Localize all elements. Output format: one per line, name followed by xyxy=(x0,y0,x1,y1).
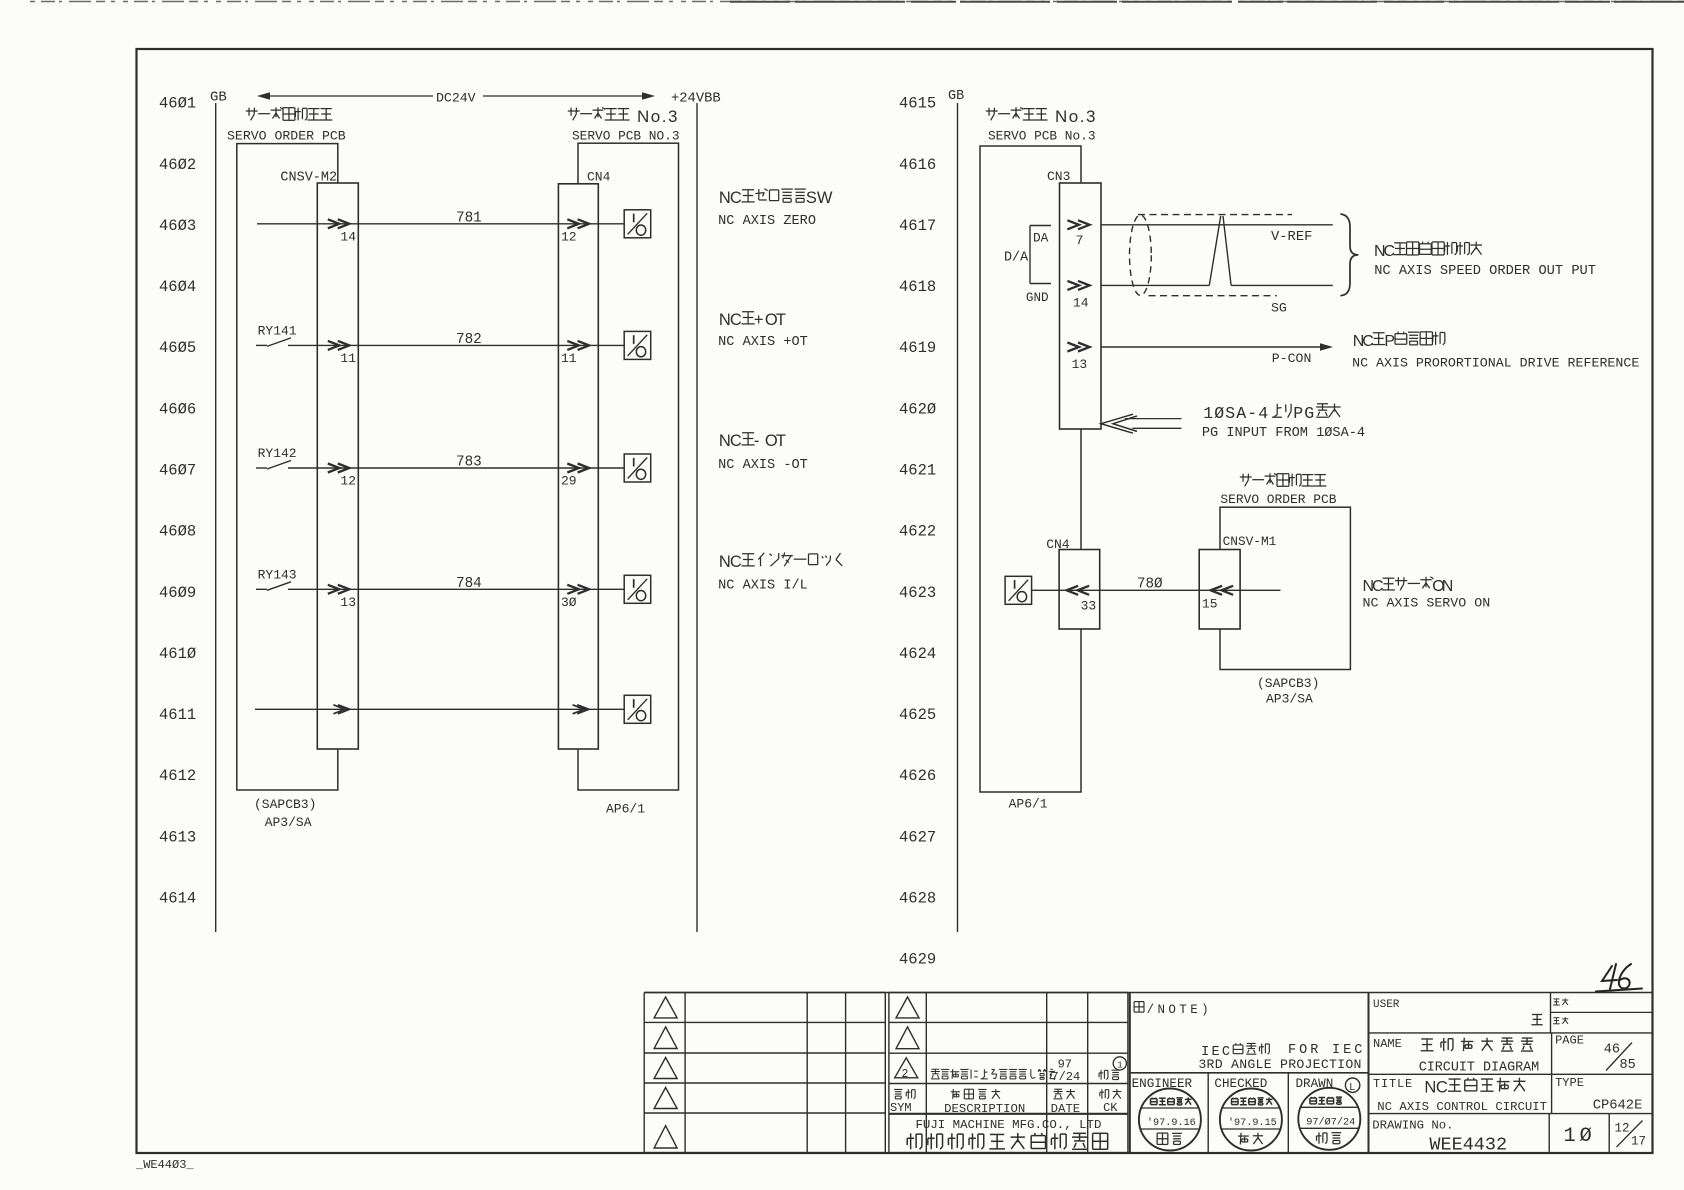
svg-text:3Ø: 3Ø xyxy=(561,595,577,610)
svg-text:462Ø: 462Ø xyxy=(899,400,936,418)
svg-text:78Ø: 78Ø xyxy=(1137,576,1163,592)
svg-text:85: 85 xyxy=(1620,1058,1636,1073)
svg-text:4613: 4613 xyxy=(159,828,196,846)
svg-text:C: C xyxy=(730,189,742,207)
svg-text:-: - xyxy=(754,432,760,450)
svg-text:46Ø3: 46Ø3 xyxy=(159,217,196,235)
svg-text:46Ø2: 46Ø2 xyxy=(159,156,196,174)
I/O block row 4603 xyxy=(624,210,651,238)
wire: +24VBB bus vertical xyxy=(696,103,698,932)
svg-text:SYM: SYM xyxy=(890,1101,912,1115)
svg-text:(SAPCB3): (SAPCB3) xyxy=(254,797,316,812)
wire 780 row 4623 xyxy=(1032,589,1281,591)
approval stamps xyxy=(1139,1089,1201,1151)
svg-text:NC AXIS SPEED ORDER OUT PUT: NC AXIS SPEED ORDER OUT PUT xyxy=(1374,264,1596,279)
svg-text:4615: 4615 xyxy=(899,95,936,113)
svg-text:V-REF: V-REF xyxy=(1271,230,1312,245)
svg-text:S: S xyxy=(1225,404,1235,423)
svg-text:3RD ANGLE PROJECTION: 3RD ANGLE PROJECTION xyxy=(1198,1057,1361,1072)
connector CN4 (right half) xyxy=(1059,550,1100,630)
revision triangle marker rev 2 xyxy=(895,1058,918,1078)
svg-text:NC AXIS +OT: NC AXIS +OT xyxy=(718,335,808,350)
svg-text:12: 12 xyxy=(561,229,577,244)
brace for NC axis speed order output xyxy=(1340,214,1358,296)
svg-text:2: 2 xyxy=(902,1068,909,1081)
junction chevrons out of CNSV-M1 pin 15 xyxy=(1211,586,1223,595)
svg-text:+: + xyxy=(754,311,764,329)
junction chevrons into CN4 pin 29 xyxy=(567,464,579,473)
revision 2 description xyxy=(931,1068,939,1070)
revision 2 CK name xyxy=(1100,1070,1102,1080)
revision triangle marker xyxy=(654,1027,677,1049)
svg-text:46Ø6: 46Ø6 xyxy=(159,400,196,418)
svg-text:P-CON: P-CON xyxy=(1272,351,1312,366)
svg-text:1: 1 xyxy=(1203,404,1213,423)
svg-text:17: 17 xyxy=(1631,1135,1646,1149)
label servo PCB No.3 (Japanese, left half) xyxy=(568,110,580,112)
svg-text:No.3: No.3 xyxy=(1055,107,1097,126)
svg-text:33: 33 xyxy=(1081,598,1097,613)
svg-text:GB: GB xyxy=(210,90,227,106)
svg-text:4617: 4617 xyxy=(899,217,936,235)
table headers SYM/DESCRIPTION/DATE/CK xyxy=(894,1088,902,1090)
board U1 servo order PCB outline (SAPCB3 AP3/SA) xyxy=(237,144,338,790)
svg-text:DA: DA xyxy=(1033,231,1049,246)
svg-text:CK: CK xyxy=(1103,1101,1118,1115)
svg-text:11: 11 xyxy=(561,351,577,366)
svg-text:'97.9.15: '97.9.15 xyxy=(1228,1117,1277,1129)
svg-text:PG INPUT FROM 1ØSA-4: PG INPUT FROM 1ØSA-4 xyxy=(1202,426,1365,441)
svg-text:AP6/1: AP6/1 xyxy=(606,802,645,817)
svg-text:46Ø4: 46Ø4 xyxy=(159,278,196,296)
svg-text:Ø: Ø xyxy=(1580,1125,1592,1148)
svg-text:C: C xyxy=(730,553,742,571)
PG input arrows into CN3 xyxy=(1125,418,1182,420)
svg-text:AP6/1: AP6/1 xyxy=(1009,797,1048,812)
svg-text:C: C xyxy=(730,311,742,329)
relay contact RY143 xyxy=(256,588,267,590)
wire: GB bus vertical (left) xyxy=(215,103,217,932)
svg-text:NC AXIS ZERO: NC AXIS ZERO xyxy=(718,214,816,229)
svg-text:CNSV-M2: CNSV-M2 xyxy=(280,171,337,186)
label servo order PCB (right) xyxy=(1240,476,1252,478)
D/A converter bracket DA/GND xyxy=(1030,225,1051,227)
svg-text:No.3: No.3 xyxy=(637,107,679,126)
svg-text:NC AXIS CONTROL CIRCUIT: NC AXIS CONTROL CIRCUIT xyxy=(1377,1100,1547,1114)
svg-text:C: C xyxy=(1384,243,1396,260)
I/O block row 4607 xyxy=(624,454,651,482)
connector CNSV-M2 xyxy=(317,183,358,749)
label servo order PCB (Japanese) xyxy=(246,110,258,112)
svg-text:CN4: CN4 xyxy=(587,170,611,185)
svg-text:USER: USER xyxy=(1373,999,1400,1011)
svg-text:783: 783 xyxy=(456,455,482,471)
revision triangle marker xyxy=(654,1058,677,1079)
svg-text:TITLE: TITLE xyxy=(1373,1077,1413,1091)
svg-text:461Ø: 461Ø xyxy=(159,645,196,663)
svg-text:14: 14 xyxy=(1073,295,1089,310)
junction chevrons into CN4 pin 12 xyxy=(567,219,579,228)
svg-text:DESCRIPTION: DESCRIPTION xyxy=(944,1102,1025,1116)
label servo PCB No.3 (right) xyxy=(986,110,998,112)
title block xyxy=(1369,1032,1653,1034)
svg-text:NC AXIS I/L: NC AXIS I/L xyxy=(718,579,808,594)
svg-text:TYPE: TYPE xyxy=(1555,1076,1584,1090)
svg-text:DRAWN: DRAWN xyxy=(1296,1077,1334,1091)
svg-text:FUJI MACHINE MFG.CO., LTD: FUJI MACHINE MFG.CO., LTD xyxy=(916,1118,1102,1132)
svg-text:W: W xyxy=(817,189,833,207)
svg-text:97/Ø7/24: 97/Ø7/24 xyxy=(1306,1116,1355,1128)
svg-text:C: C xyxy=(1362,333,1374,350)
svg-text:CN3: CN3 xyxy=(1047,169,1070,184)
svg-text:784: 784 xyxy=(456,576,482,592)
svg-text:N: N xyxy=(1442,578,1454,595)
svg-text:_WE44Ø3_: _WE44Ø3_ xyxy=(135,1158,194,1172)
svg-text:4611: 4611 xyxy=(159,706,196,724)
relay contact RY141 xyxy=(256,344,267,346)
label dono (addressee) xyxy=(1532,1013,1542,1015)
svg-text:P: P xyxy=(1293,404,1303,423)
revision triangle marker xyxy=(896,997,919,1018)
revision triangle marker xyxy=(654,997,677,1018)
svg-text:RY142: RY142 xyxy=(258,446,297,461)
svg-text:46Ø5: 46Ø5 xyxy=(159,339,196,357)
svg-text:SG: SG xyxy=(1271,301,1287,316)
svg-text:CN4: CN4 xyxy=(1046,537,1070,552)
svg-text:4624: 4624 xyxy=(899,645,936,663)
svg-text:13: 13 xyxy=(340,595,356,610)
revision table (left) xyxy=(644,992,885,994)
wire V-REF from CN3 pin 7 xyxy=(1101,224,1333,226)
svg-text:4612: 4612 xyxy=(159,767,196,785)
svg-text:T: T xyxy=(776,311,786,329)
svg-text:CP642E: CP642E xyxy=(1593,1099,1643,1114)
svg-text:S: S xyxy=(806,189,817,207)
svg-text:7/24: 7/24 xyxy=(1051,1070,1080,1084)
svg-text:4614: 4614 xyxy=(159,890,196,908)
wire: GB bus vertical (right) xyxy=(957,103,959,932)
svg-text:NC AXIS PRORORTIONAL DRIVE REF: NC AXIS PRORORTIONAL DRIVE REFERENCE xyxy=(1352,356,1639,371)
svg-text:15: 15 xyxy=(1202,596,1218,611)
svg-text:4627: 4627 xyxy=(899,828,936,846)
svg-text:C: C xyxy=(1436,1079,1448,1097)
svg-text:SERVO ORDER PCB: SERVO ORDER PCB xyxy=(1220,492,1336,507)
svg-text:4619: 4619 xyxy=(899,339,936,357)
wire P-CON from CN3 pin 13 xyxy=(1101,346,1326,348)
svg-text:AP3/SA: AP3/SA xyxy=(1266,692,1313,707)
connector CN3 xyxy=(1060,183,1102,429)
svg-text:781: 781 xyxy=(456,210,482,226)
svg-text:4616: 4616 xyxy=(899,156,936,174)
svg-text:14: 14 xyxy=(340,229,356,244)
svg-text:IEC: IEC xyxy=(1332,1043,1365,1058)
svg-text:C: C xyxy=(1372,578,1384,595)
revision triangle marker xyxy=(896,1027,919,1049)
svg-text:WEE4432: WEE4432 xyxy=(1429,1135,1507,1156)
svg-text:46Ø1: 46Ø1 xyxy=(159,95,196,113)
svg-text:CIRCUIT DIAGRAM: CIRCUIT DIAGRAM xyxy=(1419,1061,1540,1076)
svg-text:46Ø7: 46Ø7 xyxy=(159,462,196,480)
scan artifact: dark line at top edge of scan xyxy=(30,1,1684,3)
svg-text:T: T xyxy=(776,432,786,450)
I/O block row 4605 xyxy=(624,331,651,359)
junction chevrons into CNSV-M2 pin 11 xyxy=(328,341,340,350)
svg-text:13: 13 xyxy=(1072,357,1088,372)
wire 781 row 4603 xyxy=(257,223,624,225)
svg-text:L: L xyxy=(1350,1082,1356,1093)
note block xyxy=(1129,993,1131,1154)
svg-text:SERVO PCB NO.3: SERVO PCB NO.3 xyxy=(572,129,680,144)
svg-text:RY141: RY141 xyxy=(258,323,297,338)
svg-text:12: 12 xyxy=(1615,1122,1630,1136)
svg-text:4625: 4625 xyxy=(899,706,936,724)
svg-text:DATE: DATE xyxy=(1051,1102,1081,1116)
svg-text:4629: 4629 xyxy=(899,951,936,969)
svg-text:4621: 4621 xyxy=(899,462,936,480)
circled L mark xyxy=(1345,1078,1359,1092)
svg-text:DRAWING No.: DRAWING No. xyxy=(1372,1119,1453,1133)
svg-text:12: 12 xyxy=(340,474,356,489)
svg-text:FOR: FOR xyxy=(1288,1043,1321,1058)
svg-text:N: N xyxy=(1424,1079,1436,1097)
svg-text:4622: 4622 xyxy=(899,523,936,541)
wire SG from CN3 pin 14 with shield drain spike xyxy=(1101,284,1209,286)
junction chevrons into CNSV-M2 pin 13 xyxy=(328,585,340,594)
svg-text:782: 782 xyxy=(456,332,482,348)
svg-text:4618: 4618 xyxy=(899,278,936,296)
svg-text:4623: 4623 xyxy=(899,584,936,602)
revision table (right) xyxy=(889,992,1128,994)
board U3 servo PCB No.3 outline (right, AP6/1) xyxy=(980,146,1081,792)
svg-text:46: 46 xyxy=(1604,1043,1620,1058)
svg-text:NC AXIS -OT: NC AXIS -OT xyxy=(718,458,808,473)
svg-text:4626: 4626 xyxy=(899,767,936,785)
shield (dashed) around V-REF/SG pair xyxy=(1138,214,1292,216)
wire row 4611 (unlabeled spare) xyxy=(255,708,624,710)
I/O block row 4611 xyxy=(624,695,651,723)
svg-text:GND: GND xyxy=(1026,291,1049,305)
svg-text:+24VBB: +24VBB xyxy=(671,92,721,107)
junction chevrons out of CN4 pin 33 xyxy=(1067,586,1079,595)
I/O block row 4623 xyxy=(1005,576,1032,604)
svg-text:Ø: Ø xyxy=(1214,404,1224,423)
svg-text:NAME: NAME xyxy=(1373,1037,1402,1051)
title: circuit diagram (Japanese) xyxy=(1421,1038,1433,1040)
handwritten page number 46 xyxy=(1596,964,1642,992)
svg-text:AP3/SA: AP3/SA xyxy=(265,815,312,830)
svg-text:G: G xyxy=(1304,404,1314,423)
svg-text:C: C xyxy=(730,432,742,450)
svg-text:CNSV-M1: CNSV-M1 xyxy=(1223,534,1277,549)
svg-text:P: P xyxy=(1384,333,1395,350)
circled revision mark 1 xyxy=(1113,1057,1126,1070)
svg-text:NC AXIS SERVO ON: NC AXIS SERVO ON xyxy=(1363,596,1491,611)
junction chevrons into CNSV-M2 pin 14 xyxy=(328,219,340,228)
I/O block row 4609 xyxy=(624,575,651,603)
board U4 servo order PCB outline (right, SAPCB3 AP3/SA) xyxy=(1220,507,1350,669)
svg-text:46Ø8: 46Ø8 xyxy=(159,523,196,541)
board U2 servo PCB No.3 outline (AP6/1) xyxy=(578,143,679,790)
svg-text:1: 1 xyxy=(1564,1125,1576,1148)
connector CN4 (left half) xyxy=(558,184,598,749)
svg-text:7: 7 xyxy=(1076,233,1084,248)
svg-text:/NOTE): /NOTE) xyxy=(1147,1003,1212,1017)
svg-text:-: - xyxy=(1247,404,1257,423)
svg-text:SERVO ORDER PCB: SERVO ORDER PCB xyxy=(227,129,346,144)
connector CNSV-M1 xyxy=(1199,550,1240,630)
revision triangle marker xyxy=(654,1126,677,1148)
svg-text:D/A: D/A xyxy=(1004,251,1029,266)
junction chevrons into CNSV-M2 pin 12 xyxy=(328,464,340,473)
wire: DC24V span arrow xyxy=(262,95,433,97)
svg-text:SERVO PCB No.3: SERVO PCB No.3 xyxy=(988,129,1096,144)
junction chevrons into CN4 pin 30 xyxy=(567,585,579,594)
svg-text:4628: 4628 xyxy=(899,890,936,908)
svg-text:'97.9.16: '97.9.16 xyxy=(1147,1117,1196,1129)
relay contact RY142 xyxy=(256,467,267,469)
svg-text:A: A xyxy=(1236,404,1246,423)
svg-text:(SAPCB3): (SAPCB3) xyxy=(1257,676,1319,691)
junction chevrons into CN4 pin 11 xyxy=(567,341,579,350)
svg-text:29: 29 xyxy=(561,474,577,489)
svg-text:11: 11 xyxy=(340,351,356,366)
svg-text:RY143: RY143 xyxy=(258,567,297,582)
revision triangle marker xyxy=(654,1088,677,1109)
svg-text:DC24V: DC24V xyxy=(436,90,476,105)
svg-text:1: 1 xyxy=(1117,1060,1122,1070)
svg-text:4: 4 xyxy=(1258,404,1268,423)
svg-text:GB: GB xyxy=(948,89,964,104)
svg-text:46Ø9: 46Ø9 xyxy=(159,584,196,602)
svg-text:PAGE: PAGE xyxy=(1555,1034,1584,1048)
note text xyxy=(1134,1001,1144,1003)
